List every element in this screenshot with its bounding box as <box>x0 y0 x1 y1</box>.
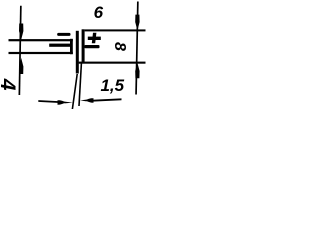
dimension line 8 (right vertical) <box>135 2 139 95</box>
svg-text:8: 8 <box>111 42 128 51</box>
dimension line 4 (left vertical) <box>19 6 22 95</box>
arrow right on 1,5 dim <box>58 100 73 105</box>
wire right <box>84 45 99 48</box>
electrode short S1 <box>70 39 73 54</box>
arrow up on 8 dim <box>135 63 139 78</box>
extension line bottom of plate (8 dim) <box>79 62 146 64</box>
electrode S2 <box>76 31 79 74</box>
extension line bottom left (1,5 dim) <box>72 74 78 109</box>
svg-text:4: 4 <box>0 78 19 91</box>
extension line L2 bottom of short electrode <box>9 52 73 54</box>
extension line top of plate (8 dim) <box>85 29 146 31</box>
arrow left on 1,5 dim <box>80 98 94 103</box>
electrode S3 <box>82 29 85 62</box>
svg-text:6: 6 <box>94 3 104 22</box>
svg-text:1,5: 1,5 <box>100 76 124 95</box>
arrow down on 4 dim <box>19 24 23 40</box>
wire left <box>49 44 71 47</box>
dimension line 1,5 right segment <box>93 98 122 101</box>
dimension line 1,5 left segment <box>38 100 60 103</box>
arrow up on 4 dim <box>19 58 23 74</box>
extension line bottom right (1,5 dim) <box>78 63 82 106</box>
arrow down on 8 dim <box>135 15 139 31</box>
minus polarity label <box>57 33 70 36</box>
plus polarity label <box>88 33 101 43</box>
extension line L1 top of short electrode <box>9 39 73 41</box>
